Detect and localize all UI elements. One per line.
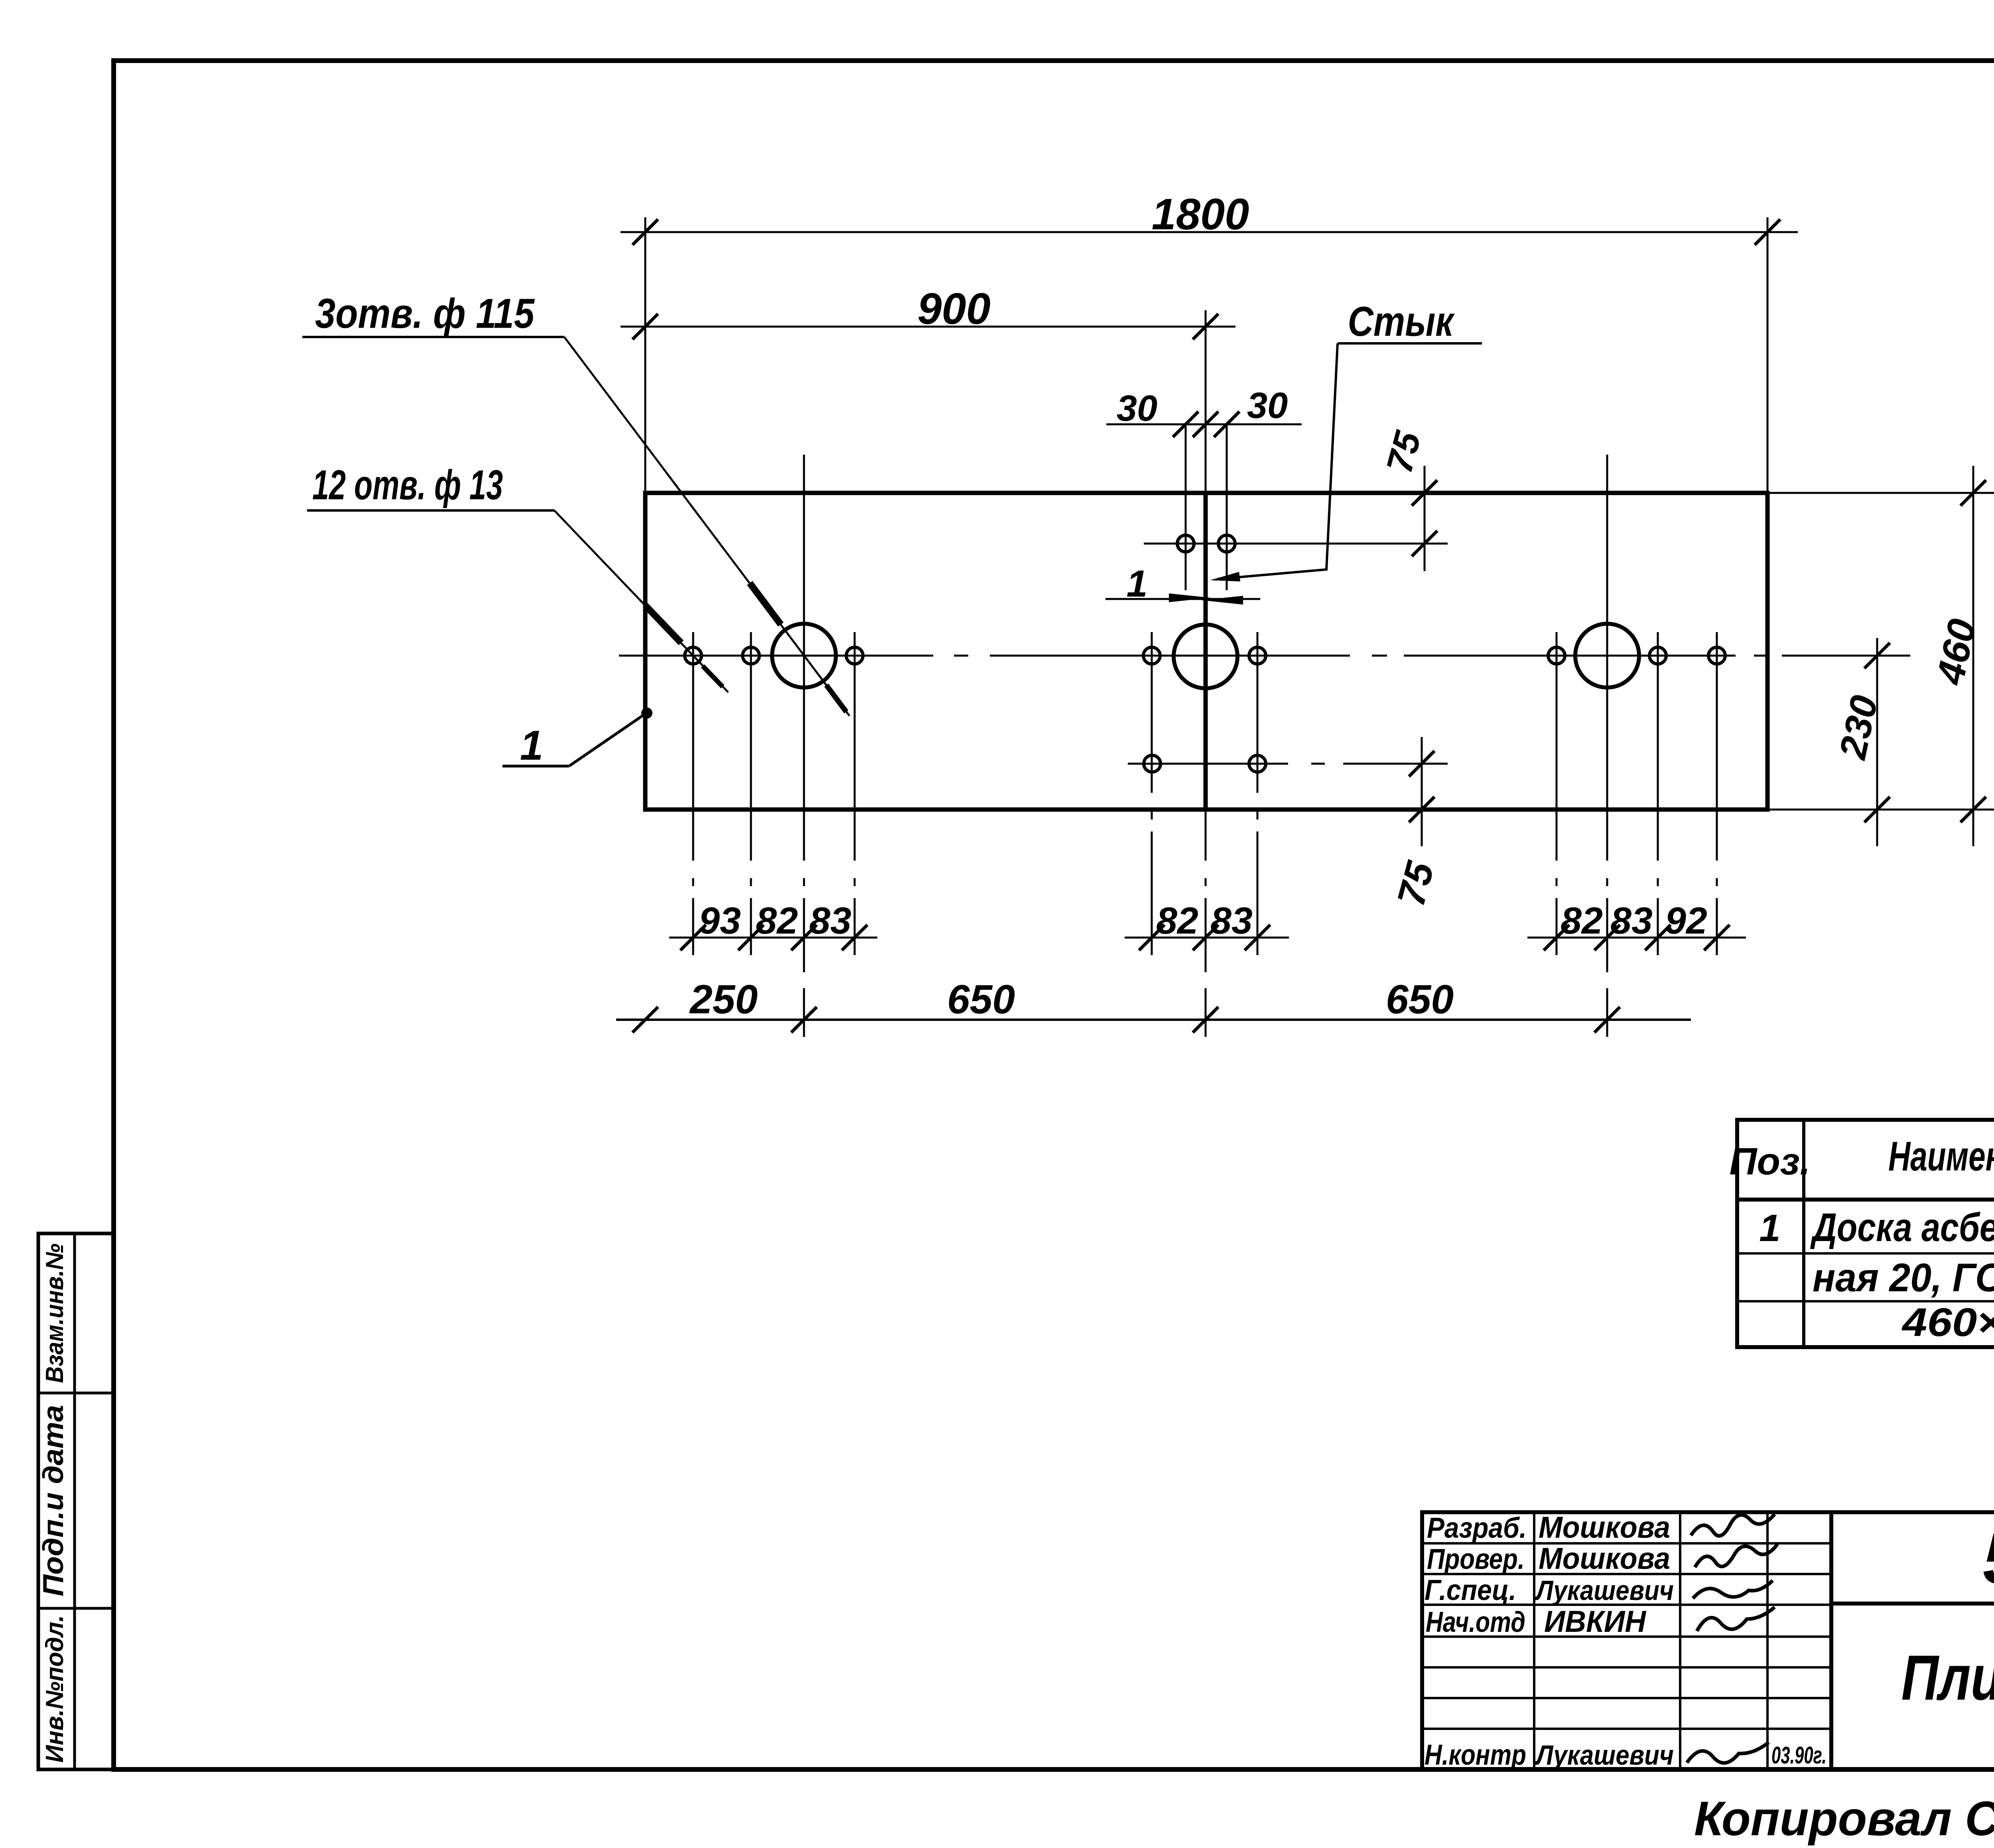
big hole 3 d115 — [1575, 624, 1639, 688]
svg-text:5.407-120.0.47: 5.407-120.0.47 — [1983, 1519, 1994, 1599]
styk extensions — [1205, 310, 1207, 493]
svg-text:30: 30 — [1247, 385, 1288, 426]
plate outline — [645, 493, 1767, 810]
dim row 82 83 92 (right) — [1527, 937, 1746, 939]
svg-text:460×900: 460×900 — [1901, 1300, 1994, 1345]
svg-text:Плита П10: Плита П10 — [1901, 1642, 1994, 1713]
svg-text:82: 82 — [1156, 900, 1198, 942]
plate top edge extension — [1767, 492, 1994, 494]
doc number box — [1831, 1602, 1994, 1606]
dim 460 — [1972, 466, 1974, 846]
svg-text:82: 82 — [1561, 900, 1603, 942]
svg-text:30: 30 — [1117, 388, 1157, 429]
parts table — [1737, 1120, 1994, 1347]
svg-text:1: 1 — [1759, 1207, 1780, 1249]
small holes d13 — [685, 647, 701, 664]
dim 75 top — [1424, 466, 1426, 571]
stamp cell divider 1 — [38, 1392, 114, 1395]
svg-text:Провер.: Провер. — [1427, 1543, 1525, 1575]
svg-text:1: 1 — [520, 722, 543, 769]
svg-text:Подп.и дата: Подп.и дата — [37, 1405, 69, 1596]
svg-text:1: 1 — [1127, 563, 1148, 605]
main horizontal centerline — [619, 655, 933, 657]
big hole 1 d115 — [772, 624, 836, 688]
hole centerlines group 1 — [692, 632, 694, 861]
hole centerlines group 2 — [1151, 632, 1153, 793]
svg-text:Доска асбестоцемент-: Доска асбестоцемент- — [1810, 1205, 1994, 1250]
signature table rows — [1422, 1542, 1831, 1545]
sig table right edge — [1829, 1512, 1833, 1769]
svg-text:03.90г.: 03.90г. — [1771, 1742, 1827, 1769]
svg-text:Мошкова: Мошкова — [1539, 1542, 1670, 1576]
table header line — [1737, 1198, 1994, 1202]
svg-text:82: 82 — [756, 900, 798, 942]
svg-text:83: 83 — [1210, 900, 1253, 942]
svg-text:92: 92 — [1665, 900, 1707, 942]
svg-text:900: 900 — [917, 284, 991, 333]
signature table verticals — [1533, 1512, 1535, 1769]
dim row 82 83 (middle) — [1125, 937, 1289, 939]
styk joint line (thick) — [1204, 493, 1208, 810]
stamp column divider — [73, 1233, 76, 1769]
big hole 2 d115 — [1174, 625, 1237, 688]
top holes centerline — [1144, 543, 1448, 545]
dim 230 — [1876, 638, 1878, 846]
svg-text:83: 83 — [809, 900, 851, 942]
stamp cell divider 2 — [38, 1607, 114, 1610]
dim row 93 82 83 — [669, 937, 877, 939]
dim 900 — [621, 326, 1235, 328]
left stamp column — [38, 1233, 114, 1769]
svg-text:12 отв. ф 13: 12 отв. ф 13 — [312, 462, 503, 508]
dim 75 bottom — [1421, 737, 1423, 846]
svg-text:Инв.№подл.: Инв.№подл. — [41, 1615, 69, 1763]
svg-text:Наименование: Наименование — [1888, 1133, 1994, 1180]
joint gap 1mm marker — [1105, 598, 1260, 600]
svg-text:Копировал Сергеева: Копировал Сергеева — [1694, 1791, 1994, 1846]
col Poz divider — [1802, 1120, 1805, 1347]
svg-text:ИВКИН: ИВКИН — [1544, 1605, 1647, 1639]
svg-text:Стык: Стык — [1348, 298, 1455, 345]
svg-text:650: 650 — [947, 977, 1015, 1022]
svg-text:Мошкова: Мошкова — [1539, 1511, 1670, 1545]
svg-text:Разраб.: Разраб. — [1427, 1512, 1527, 1544]
hole centerlines group 3 — [1556, 632, 1558, 861]
svg-text:Н.контр: Н.контр — [1425, 1739, 1526, 1771]
svg-text:Г.спец.: Г.спец. — [1425, 1574, 1516, 1606]
svg-text:ная 20, ГОСТ4248-78*: ная 20, ГОСТ4248-78* — [1813, 1255, 1994, 1300]
dim 1800 — [621, 231, 1798, 233]
svg-text:1800: 1800 — [1152, 190, 1249, 239]
svg-text:93: 93 — [699, 900, 741, 942]
bottom holes centerline — [1128, 763, 1288, 765]
svg-text:3отв. ф 115: 3отв. ф 115 — [315, 290, 535, 337]
plate bottom edge extension — [1767, 809, 1994, 811]
svg-text:83: 83 — [1610, 900, 1653, 942]
dim 30 30 — [1106, 424, 1302, 426]
svg-text:Поз.: Поз. — [1729, 1140, 1810, 1183]
svg-text:250: 250 — [689, 977, 758, 1022]
svg-text:Нач.отд: Нач.отд — [1426, 1606, 1525, 1638]
svg-text:Лукашевич: Лукашевич — [1535, 1575, 1674, 1606]
svg-text:Взам.инв.№: Взам.инв.№ — [41, 1243, 69, 1383]
dim row 250 650 650 — [616, 1019, 1691, 1021]
svg-text:Лукашевич: Лукашевич — [1535, 1740, 1674, 1771]
signatures (squiggles) — [1691, 1514, 1775, 1536]
svg-text:650: 650 — [1386, 977, 1454, 1022]
title block outline — [1422, 1512, 1994, 1769]
